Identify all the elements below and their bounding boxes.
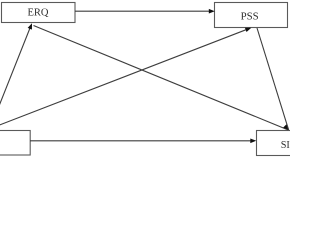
arrow lower-left to ERQ [0, 22, 34, 108]
arrow ERQ to SI [34, 26, 292, 133]
box SI (cropped at right edge) [257, 131, 320, 156]
box bottom-left (cropped at left edge) [0, 131, 30, 156]
box PSS [215, 3, 288, 28]
arrow lower-left to PSS [0, 26, 252, 126]
svg-text:PSS: PSS [241, 11, 259, 23]
box ERQ [2, 3, 76, 23]
arrow bottom-left box to SI [30, 139, 256, 144]
svg-text:ERQ: ERQ [28, 7, 49, 18]
arrow PSS to SI [257, 28, 289, 130]
svg-text:SI: SI [281, 140, 290, 151]
arrow ERQ to PSS [75, 9, 215, 14]
